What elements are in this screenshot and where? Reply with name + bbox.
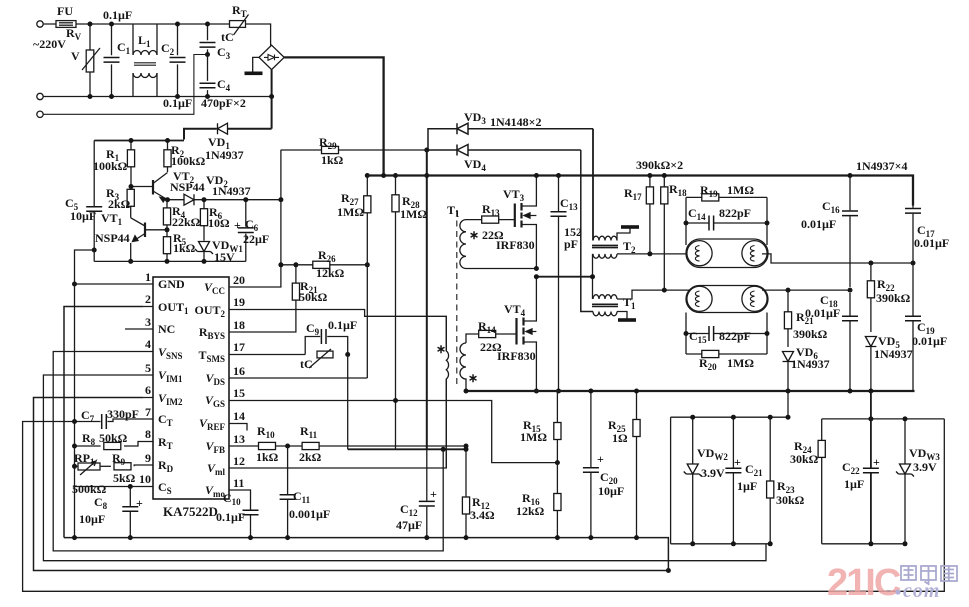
resistor R13: [466, 216, 515, 223]
capacitor C9: [305, 329, 348, 355]
svg-text:390kΩ: 390kΩ: [876, 291, 911, 305]
capacitor C11: [280, 446, 296, 540]
svg-text:14: 14: [233, 409, 245, 423]
svg-text:tC: tC: [300, 357, 313, 371]
capacitor C1: [104, 22, 120, 100]
bridge rectifier: [259, 45, 284, 69]
svg-text:3: 3: [145, 315, 151, 329]
svg-text:1MΩ: 1MΩ: [337, 205, 364, 219]
svg-text:1MΩ: 1MΩ: [400, 207, 427, 221]
wire top AC line: [43, 24, 270, 46]
svg-text:22µF: 22µF: [243, 232, 269, 246]
svg-text:12kΩ: 12kΩ: [516, 504, 545, 518]
capacitor C8: [122, 484, 138, 540]
capacitor C13: [551, 173, 567, 394]
wire VDW2 block top rail: [671, 416, 788, 418]
inductor L1 common-mode choke: [133, 24, 157, 97]
capacitor C6: [238, 197, 254, 261]
T1g gate winding b: [460, 343, 466, 391]
wire source rail 391: [466, 390, 915, 392]
wire lamp2 right pin: [762, 289, 850, 291]
resistor R21a 50k: [292, 262, 299, 300]
svg-text:KA7522D: KA7522D: [163, 504, 218, 519]
svg-text:22kΩ: 22kΩ: [172, 215, 201, 229]
pin 14 VREF hook: [239, 424, 247, 431]
wire pin12 Vml: [239, 379, 446, 468]
svg-text:100kΩ: 100kΩ: [171, 154, 206, 168]
wire pin17 TSMS: [239, 354, 305, 356]
resistor R10: [259, 442, 303, 449]
wire T1o top to lamp2: [617, 290, 692, 299]
svg-text:0.001µF: 0.001µF: [289, 507, 330, 521]
svg-text:1MΩ: 1MΩ: [727, 356, 754, 370]
svg-text:3.9V: 3.9V: [701, 466, 725, 480]
resistor R5: [163, 230, 170, 264]
IC pin stubs right: [229, 287, 239, 490]
resistor R27: [364, 173, 371, 378]
transformer T2: [592, 236, 618, 258]
resistor R22: [867, 263, 874, 332]
svg-text:12: 12: [233, 454, 245, 468]
zener VDW2: [684, 415, 702, 547]
resistor R8: [72, 442, 121, 449]
svg-text:1MΩ: 1MΩ: [520, 430, 547, 444]
resistor R1: [127, 138, 134, 187]
svg-text:1: 1: [145, 270, 151, 284]
svg-text:10: 10: [139, 472, 151, 486]
resistor R16: [554, 463, 561, 540]
svg-text:470pF×2: 470pF×2: [201, 96, 246, 110]
svg-text:10µF: 10µF: [598, 484, 624, 498]
svg-text:10µF: 10µF: [79, 512, 105, 526]
zener VDW3: [896, 416, 914, 543]
IC pin stubs left: [125, 284, 153, 487]
wire pin19 OUT2: [239, 310, 446, 351]
transistor VT2: [129, 173, 168, 202]
svg-text:NC: NC: [158, 322, 175, 336]
wire pin11 Vmo: [239, 490, 251, 510]
ground at T2: [617, 225, 639, 240]
ground at bridge: [245, 57, 263, 75]
svg-text:5kΩ: 5kΩ: [113, 471, 136, 485]
svg-text:13: 13: [233, 432, 245, 446]
potentiometer RP1: [72, 461, 100, 475]
wire right block top rail: [822, 418, 945, 420]
wire earth line: [43, 55, 207, 115]
svg-text:0.1µF: 0.1µF: [328, 318, 357, 332]
wire VD3 to T2: [592, 129, 594, 241]
resistor R4: [163, 200, 170, 230]
svg-text:15: 15: [233, 386, 245, 400]
svg-text:21IC: 21IC: [827, 562, 901, 604]
svg-text:12kΩ: 12kΩ: [316, 266, 345, 280]
wire pin15 VGS: [239, 401, 557, 463]
svg-text:+: +: [234, 218, 241, 232]
wire VD4 to T1: [581, 150, 593, 312]
wire pin7 CT: [108, 419, 144, 422]
wire pin4 VSNS loop: [53, 352, 443, 551]
resistor R25: [633, 389, 640, 541]
wire VT3 gate winding return: [466, 268, 536, 270]
resistor R11: [302, 442, 468, 449]
resistor R19: [686, 194, 767, 201]
svg-text:GND: GND: [158, 277, 185, 291]
svg-text:30kΩ: 30kΩ: [776, 493, 805, 507]
wire pin2 OUT1 loop: [64, 307, 143, 538]
svg-text:1N4937: 1N4937: [205, 148, 244, 162]
svg-text:1µF: 1µF: [844, 477, 864, 491]
svg-text:7: 7: [145, 405, 151, 419]
resistor R24: [818, 419, 825, 544]
svg-text:500kΩ: 500kΩ: [72, 482, 107, 496]
svg-text:IRF830: IRF830: [497, 349, 536, 363]
diode VD5: [865, 337, 876, 394]
svg-text:822pF: 822pF: [719, 206, 751, 220]
resistor R14: [466, 330, 517, 343]
diode VD3: [428, 123, 593, 150]
wire IC ground rail: [64, 538, 668, 571]
svg-text:8: 8: [145, 427, 151, 441]
capacitor C14: [684, 197, 770, 245]
svg-text:1µF: 1µF: [737, 479, 757, 493]
svg-text:0.1µF: 0.1µF: [103, 8, 132, 22]
thermistor tC2: [309, 349, 350, 368]
wire pin10 CS: [75, 486, 144, 488]
wire current sense line: [348, 448, 466, 450]
svg-text:50kΩ: 50kΩ: [99, 431, 128, 445]
svg-text:1kΩ: 1kΩ: [256, 450, 279, 464]
wire tC node down: [347, 355, 349, 450]
svg-text:pF: pF: [564, 237, 578, 251]
resistor R17: [646, 173, 653, 254]
svg-text:4: 4: [145, 337, 151, 351]
lamp tube 1: [686, 239, 768, 268]
wire startup bottom rail: [94, 260, 246, 262]
wire bridge + output to bus: [284, 57, 383, 175]
svg-text:0.01µF: 0.01µF: [912, 334, 947, 348]
resistor R18: [661, 173, 668, 290]
svg-text:2kΩ: 2kΩ: [299, 450, 322, 464]
svg-text:0.1µF: 0.1µF: [163, 96, 192, 110]
MOSFET VT3: [515, 173, 539, 269]
resistor R9: [101, 463, 131, 470]
svg-text:2: 2: [145, 292, 151, 306]
diode VD1: [184, 123, 272, 139]
wire pin13 VFB: [239, 445, 258, 447]
svg-text:30kΩ: 30kΩ: [790, 452, 819, 466]
lamp tube 2: [686, 286, 768, 313]
svg-text:10Ω: 10Ω: [208, 216, 230, 230]
transformer T1g dashed core: [456, 210, 458, 386]
svg-text:17: 17: [233, 340, 245, 354]
svg-text:~220V: ~220V: [33, 37, 66, 51]
svg-text:6: 6: [145, 383, 151, 397]
capacitor C19: [905, 263, 921, 391]
T1g gate winding a: [460, 220, 466, 269]
svg-text:0.01µF: 0.01µF: [801, 217, 836, 231]
svg-text:0.1µF: 0.1µF: [216, 510, 245, 524]
resistor R12: [462, 447, 469, 540]
terminal L: [37, 21, 43, 27]
svg-text:+: +: [734, 455, 741, 469]
svg-text:330pF: 330pF: [107, 407, 139, 421]
svg-text:2kΩ: 2kΩ: [108, 197, 131, 211]
wire bridge - output down: [271, 70, 273, 129]
svg-text:47µF: 47µF: [396, 518, 422, 532]
capacitor C18: [842, 293, 858, 394]
resistor R2: [164, 138, 171, 172]
svg-text:9: 9: [145, 451, 151, 465]
svg-text:10µF: 10µF: [70, 209, 96, 223]
svg-text:tC: tC: [221, 30, 234, 44]
svg-text:0.01µF: 0.01µF: [805, 306, 840, 320]
svg-text:NSP44: NSP44: [170, 180, 205, 194]
resistor R15: [554, 391, 561, 465]
transformer T1o: [592, 295, 618, 316]
svg-text:1N4937: 1N4937: [791, 357, 830, 371]
svg-text:1N4937: 1N4937: [874, 347, 913, 361]
capacitor C2: [170, 22, 186, 100]
resistor R20: [686, 350, 767, 357]
zener VDW1: [195, 242, 213, 264]
resistor R3: [127, 187, 134, 218]
capacitor C15: [684, 313, 770, 355]
svg-text:FU: FU: [57, 4, 73, 18]
wire common ground vertical: [75, 250, 95, 538]
wire bottom AC line: [43, 96, 271, 98]
capacitor C12: [419, 449, 435, 540]
svg-text:1Ω: 1Ω: [612, 431, 628, 445]
MOSFET VT4: [517, 277, 539, 394]
wire pin6 VIM2 loop: [34, 398, 669, 571]
svg-text:20: 20: [233, 273, 245, 287]
wire VCC node line: [204, 199, 281, 201]
resistor R26: [278, 261, 369, 268]
resistor R21b 390k: [784, 290, 791, 347]
wire main top rail: [367, 176, 913, 206]
svg-text:3.9V: 3.9V: [913, 460, 937, 474]
wire VDW2 block left side: [670, 417, 672, 544]
diode VD2: [165, 194, 204, 205]
thermistor RT: [230, 15, 249, 36]
resistor R28: [392, 173, 399, 449]
svg-text:+: +: [430, 487, 437, 501]
wire pin1 GND: [75, 283, 144, 285]
terminal N: [37, 93, 43, 99]
wire pin5 VIM1 loop: [43, 375, 766, 561]
svg-text:19: 19: [233, 295, 245, 309]
svg-text:3.4Ω: 3.4Ω: [470, 508, 495, 522]
svg-text:+: +: [873, 455, 880, 469]
IC U1 KA7522D box: [153, 277, 229, 499]
svg-text:+: +: [597, 452, 604, 466]
svg-text:11: 11: [233, 476, 244, 490]
wire VDW2 block bottom rail: [671, 543, 771, 545]
svg-text:com: com: [903, 580, 940, 602]
wire pin9 RD: [134, 465, 143, 466]
svg-text:822pF: 822pF: [719, 329, 751, 343]
svg-text:16: 16: [233, 364, 245, 378]
capacitor C17: [905, 206, 921, 264]
resistor R23: [767, 415, 774, 547]
svg-text:1kΩ: 1kΩ: [173, 241, 196, 255]
wire VD4 node down: [426, 150, 428, 449]
watermark dot: [895, 589, 900, 594]
ground at T1o: [617, 312, 636, 322]
capacitor C10: [243, 510, 259, 540]
wire right block bottom rail: [822, 543, 905, 545]
svg-text:IRF830: IRF830: [496, 238, 535, 252]
watermark CJK: [901, 566, 957, 584]
wire T2 bottom to lamp1: [593, 254, 693, 299]
svg-text:18: 18: [233, 318, 245, 332]
wire half-bridge midpoint: [536, 276, 592, 278]
svg-text:390kΩ×2: 390kΩ×2: [636, 158, 683, 172]
svg-text:∗: ∗: [468, 371, 478, 385]
svg-text:1N4148×2: 1N4148×2: [490, 115, 542, 129]
capacitor C16: [842, 173, 858, 287]
svg-text:1kΩ: 1kΩ: [321, 153, 344, 167]
svg-text:1MΩ: 1MΩ: [727, 183, 754, 197]
svg-text:15V: 15V: [214, 250, 235, 264]
node rail-570 join: [666, 568, 671, 573]
svg-text:∗: ∗: [436, 342, 446, 356]
svg-text:100kΩ: 100kΩ: [93, 159, 128, 173]
wire pin16 VDS: [239, 377, 367, 379]
svg-text:V: V: [71, 49, 80, 63]
wire pin8 RT: [124, 442, 143, 447]
svg-text:1N4937: 1N4937: [212, 184, 251, 198]
capacitor C22: [863, 391, 879, 544]
wire pin20 VCC: [239, 150, 281, 287]
svg-text:1N4937×4: 1N4937×4: [856, 159, 908, 173]
varistor RV: [82, 22, 100, 100]
diode VD4: [424, 145, 581, 156]
svg-text:50kΩ: 50kΩ: [299, 290, 328, 304]
svg-text:0.01µF: 0.01µF: [914, 236, 949, 250]
capacitor C20: [583, 389, 599, 541]
transistor VT1: [128, 218, 169, 264]
diode VD6: [783, 352, 794, 418]
capacitor C3: [200, 22, 216, 58]
T1g primary winding: [446, 316, 448, 468]
svg-text:390kΩ: 390kΩ: [793, 327, 828, 341]
svg-text:+: +: [136, 496, 143, 510]
fuse FU: [56, 21, 76, 28]
wire lamp1 right pin: [762, 254, 913, 263]
capacitor C21: [725, 415, 741, 547]
wire pin18 RBYS: [239, 300, 296, 332]
capacitor C7: [23, 414, 945, 591]
svg-text:NSP44: NSP44: [95, 231, 130, 245]
svg-text:5: 5: [145, 361, 151, 375]
node pin1-common: [72, 282, 77, 287]
resistor R6: [200, 197, 207, 241]
resistor R29: [281, 146, 427, 153]
terminal E: [37, 111, 43, 117]
capacitor C4: [200, 55, 216, 100]
wire startup top rail: [94, 140, 184, 142]
capacitor C5: [86, 141, 102, 262]
